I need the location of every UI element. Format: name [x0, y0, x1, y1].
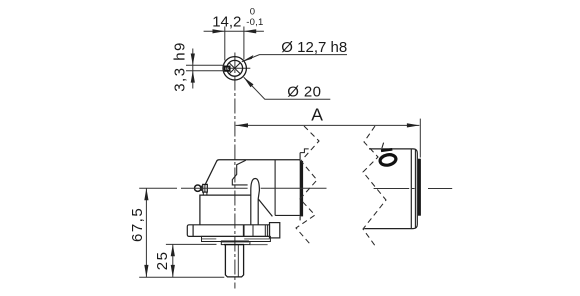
dim 67,5 dimension line — [145, 188, 147, 277]
right block under motor flange — [270, 223, 280, 238]
finger lug — [251, 179, 273, 225]
svg-text:Ø 20: Ø 20 — [287, 83, 321, 100]
dim 14,2 arrowheads — [213, 29, 257, 33]
cap bar — [418, 159, 421, 216]
motor flange plate — [300, 161, 303, 216]
svg-text:67,5: 67,5 — [129, 207, 146, 242]
dim 3,3 h9 dimension line — [192, 49, 194, 89]
svg-text:0: 0 — [250, 7, 255, 18]
adapter bottom edge — [275, 214, 300, 216]
crosshair horizontal of shaft section — [228, 67, 250, 69]
left break zigzag — [296, 126, 319, 244]
X diagonals in shaft bore — [229, 63, 240, 74]
output shaft — [225, 245, 243, 277]
cap rim lines — [410, 149, 412, 229]
housing top edge with left slant — [205, 160, 300, 185]
dim 25 arrowheads — [171, 244, 175, 277]
svg-text:3,3 h9: 3,3 h9 — [171, 41, 188, 92]
svg-text:14,2: 14,2 — [212, 14, 241, 31]
leader O20 — [244, 77, 331, 99]
dim 14,2 extension lines — [225, 27, 244, 61]
flange inner verticals — [243, 225, 245, 237]
eyebolt — [379, 153, 397, 166]
svg-text:25: 25 — [154, 251, 171, 271]
centerline vertical (shaft axis) — [234, 53, 236, 289]
adapter joint vertical — [274, 160, 276, 216]
shaft keyway line — [237, 245, 239, 277]
key in keyway — [225, 67, 230, 71]
dim A arrowheads — [236, 123, 420, 127]
housing inner contour — [232, 160, 247, 185]
dim A dimension line — [236, 124, 420, 126]
housing box left edge and top edge — [200, 195, 251, 225]
input axis centerline segments — [139, 187, 452, 189]
outer circle O20 — [223, 57, 246, 80]
motor cap outline — [364, 149, 417, 229]
svg-text:A: A — [311, 105, 323, 125]
svg-text:Ø 12,7 h8: Ø 12,7 h8 — [281, 39, 347, 56]
dim 14,2 dimension line — [204, 30, 264, 32]
boss level 1 — [202, 236, 271, 241]
grease nipple — [195, 184, 208, 195]
flange top step — [300, 149, 309, 153]
dim 25 top extension line — [166, 243, 217, 245]
output flange — [187, 225, 269, 237]
dim A extension line — [419, 119, 421, 158]
boss level 2 — [221, 242, 250, 245]
leader O12,7 h8 — [242, 55, 347, 62]
dim 25 dimension line — [172, 244, 174, 277]
inner circle O12.7 — [227, 60, 243, 76]
dim 3,3 h9 arrowheads — [191, 54, 195, 83]
dim 67,5 bottom extension line — [139, 276, 224, 278]
dim 67,5 arrowheads — [144, 188, 148, 277]
dim 3,3 h9 extension lines — [186, 65, 224, 71]
right break zigzag — [363, 126, 386, 247]
svg-text:-0,1: -0,1 — [246, 17, 263, 28]
